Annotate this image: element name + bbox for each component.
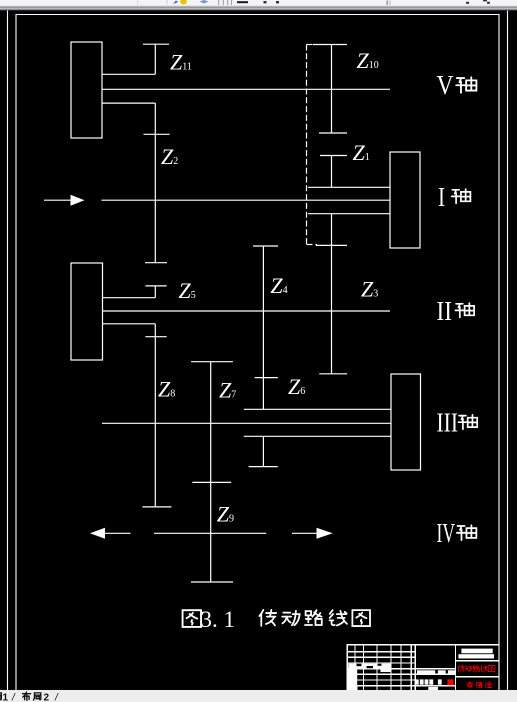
- shaft V upper line: [102, 73, 155, 75]
- label shaft IV hanzi: [457, 525, 476, 540]
- title block outer: [347, 645, 499, 691]
- toolbar small marks: [264, 0, 491, 4]
- shaft IV line segment b: [154, 532, 266, 534]
- toolbar separators: [218, 0, 232, 5]
- status bar: [0, 690, 517, 702]
- caption 图3.1: [183, 610, 201, 627]
- title block right section dividers: [456, 660, 500, 662]
- gear Z11: [143, 44, 169, 74]
- svg-text:III: III: [437, 408, 459, 438]
- title block white text blobs: [348, 649, 494, 691]
- shaft III center line: [102, 422, 391, 424]
- gear Z8: [142, 324, 171, 507]
- gear Z1 Z3 line: [316, 156, 347, 374]
- label shaft V hanzi: [456, 77, 476, 92]
- toolbar separator mid: [387, 1, 388, 6]
- shaft III lower line: [244, 435, 391, 437]
- gear block I-shaft: [390, 152, 420, 248]
- toolbar icon blue arrow: [173, 1, 178, 5]
- shaft V center line: [102, 88, 390, 90]
- gear Z7 Z9 line: [191, 362, 233, 582]
- title block grid verticals: [354, 645, 356, 691]
- shaft II center line: [103, 310, 391, 312]
- title block notches (black) on row4: [357, 664, 382, 669]
- toolbar strip: [0, 0, 517, 11]
- caption 传动路线图: [259, 610, 276, 626]
- label shaft I hanzi: [452, 189, 471, 203]
- title block grid horizontals left: [347, 651, 415, 653]
- shaft II upper line: [103, 297, 156, 299]
- arrow input I-shaft: [71, 195, 85, 206]
- toolbar dark dash: [237, 1, 248, 3]
- gear Z2: [144, 103, 170, 263]
- svg-text:3. 1: 3. 1: [201, 607, 236, 632]
- gear block III-shaft: [391, 374, 421, 470]
- arrow IV left: [90, 528, 105, 539]
- title block red title 传动路线图: [458, 665, 495, 671]
- shaft I upper line: [308, 186, 390, 188]
- gear block V-shaft: [71, 42, 102, 138]
- svg-text:2: 2: [44, 693, 50, 702]
- arrow IV right: [317, 528, 333, 539]
- gear block II-shaft: [71, 263, 103, 360]
- shaft I lower line: [308, 213, 390, 215]
- shaft I input segment: [44, 199, 71, 201]
- shaft III upper line: [244, 408, 391, 410]
- label shaft II hanzi: [455, 303, 474, 317]
- tab text fragment 局1: [0, 693, 1, 700]
- gear Z5: [145, 286, 166, 298]
- dashed sliding-block frame: [307, 45, 318, 245]
- shaft IV line segment c: [292, 532, 317, 534]
- svg-text:1: 1: [3, 693, 9, 702]
- shaft II lower line: [103, 323, 156, 325]
- gear Z10: [313, 45, 347, 134]
- tab text 布局2: [23, 692, 31, 700]
- shaft V lower line: [102, 102, 155, 104]
- title block red square: [447, 679, 453, 685]
- shaft I center line: [102, 199, 391, 201]
- gear Z4 line: [249, 246, 278, 467]
- paper edge right: [507, 11, 509, 691]
- svg-text:I: I: [438, 182, 445, 212]
- paper edge left: [7, 11, 9, 691]
- svg-text:V: V: [437, 70, 454, 100]
- label shaft III hanzi: [459, 415, 478, 429]
- svg-text:II: II: [437, 296, 453, 326]
- toolbar icon yellow blob: [180, 0, 187, 4]
- shaft IV line segment a: [105, 532, 131, 534]
- toolbar icon blue diamond: [200, 0, 209, 4]
- svg-text:IV: IV: [437, 518, 456, 548]
- title block red name 李德淦: [467, 682, 492, 688]
